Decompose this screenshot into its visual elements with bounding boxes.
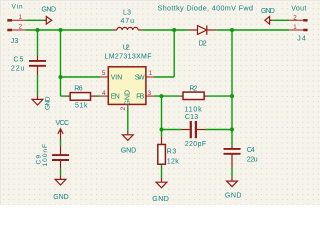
svg-text:1: 1 bbox=[149, 70, 153, 77]
svg-text:U2: U2 bbox=[123, 44, 130, 51]
svg-text:GND: GND bbox=[125, 90, 132, 106]
svg-text:J3: J3 bbox=[11, 38, 19, 45]
svg-text:GND: GND bbox=[121, 147, 137, 154]
svg-text:4: 4 bbox=[102, 90, 106, 97]
svg-text:22u: 22u bbox=[247, 156, 258, 163]
svg-text:GND: GND bbox=[225, 193, 242, 200]
svg-text:L3: L3 bbox=[123, 9, 131, 16]
svg-text:1: 1 bbox=[19, 14, 23, 21]
svg-text:220pF: 220pF bbox=[185, 141, 207, 148]
svg-text:5: 5 bbox=[102, 70, 106, 77]
svg-text:C5: C5 bbox=[13, 57, 23, 64]
svg-text:J4: J4 bbox=[297, 36, 306, 43]
svg-text:GND: GND bbox=[152, 196, 169, 203]
svg-text:100nF: 100nF bbox=[42, 144, 49, 167]
svg-text:Vout: Vout bbox=[291, 5, 306, 12]
svg-text:SW: SW bbox=[135, 74, 145, 81]
svg-text:EN: EN bbox=[111, 94, 120, 101]
svg-text:GND: GND bbox=[42, 6, 57, 13]
svg-text:FB: FB bbox=[136, 94, 144, 101]
svg-text:47u: 47u bbox=[121, 18, 135, 25]
svg-text:110k: 110k bbox=[185, 106, 203, 113]
svg-text:2: 2 bbox=[19, 24, 23, 31]
svg-text:VIN: VIN bbox=[111, 74, 123, 81]
svg-text:R6: R6 bbox=[74, 85, 83, 92]
svg-text:1: 1 bbox=[293, 24, 297, 31]
svg-text:3: 3 bbox=[148, 90, 152, 97]
svg-text:2: 2 bbox=[120, 106, 127, 110]
svg-text:Vin: Vin bbox=[12, 3, 23, 10]
svg-text:R3: R3 bbox=[167, 149, 177, 156]
svg-text:VCC: VCC bbox=[56, 120, 70, 127]
svg-text:GND: GND bbox=[44, 96, 51, 110]
svg-text:GND: GND bbox=[53, 194, 68, 201]
svg-text:C13: C13 bbox=[185, 114, 198, 121]
svg-text:51k: 51k bbox=[75, 102, 88, 109]
svg-text:D2: D2 bbox=[199, 41, 207, 48]
svg-text:LM27313XMF: LM27313XMF bbox=[105, 53, 152, 60]
svg-text:C4: C4 bbox=[247, 147, 255, 154]
svg-text:22u: 22u bbox=[11, 65, 25, 72]
svg-text:R2: R2 bbox=[189, 85, 197, 92]
svg-text:12k: 12k bbox=[167, 158, 180, 165]
svg-text:GND: GND bbox=[261, 8, 275, 15]
svg-text:Shottky Diode, 400mV Fwd: Shottky Diode, 400mV Fwd bbox=[158, 4, 254, 13]
svg-text:2: 2 bbox=[293, 14, 297, 21]
